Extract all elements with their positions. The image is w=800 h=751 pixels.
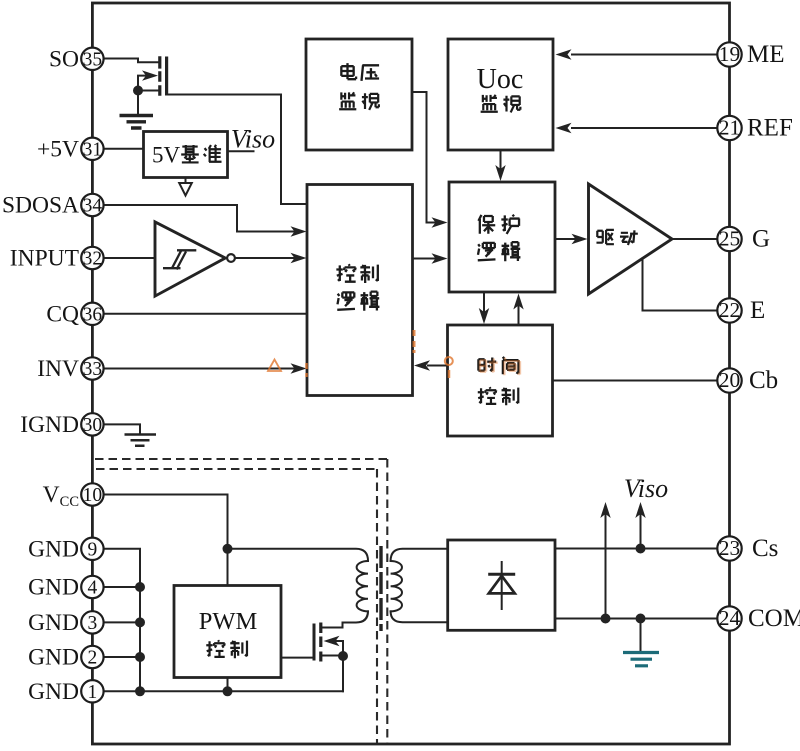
svg-text:3: 3 bbox=[88, 613, 98, 634]
svg-text:25: 25 bbox=[719, 227, 741, 251]
svg-text:ME: ME bbox=[747, 41, 785, 68]
svg-text:24: 24 bbox=[719, 606, 741, 630]
svg-text:G: G bbox=[752, 226, 770, 253]
svg-text:20: 20 bbox=[719, 368, 741, 392]
svg-text:1: 1 bbox=[88, 682, 98, 703]
svg-text:9: 9 bbox=[88, 539, 98, 560]
svg-text:INPUT: INPUT bbox=[10, 246, 79, 272]
svg-text:REF: REF bbox=[747, 115, 793, 142]
svg-text:SO: SO bbox=[49, 46, 79, 72]
svg-text:23: 23 bbox=[719, 536, 741, 560]
svg-text:+5V: +5V bbox=[37, 136, 79, 162]
svg-text:5V: 5V bbox=[152, 143, 181, 168]
svg-text:GND: GND bbox=[28, 679, 79, 705]
svg-text:36: 36 bbox=[83, 304, 103, 325]
svg-text:SDOSA: SDOSA bbox=[2, 193, 79, 219]
svg-text:E: E bbox=[750, 297, 765, 324]
svg-text:PWM: PWM bbox=[199, 608, 258, 635]
svg-text:Viso: Viso bbox=[231, 125, 275, 154]
svg-text:VCC: VCC bbox=[43, 482, 79, 510]
svg-text:GND: GND bbox=[28, 645, 79, 671]
svg-text:Viso: Viso bbox=[624, 474, 668, 503]
svg-text:GND: GND bbox=[28, 536, 79, 562]
svg-text:35: 35 bbox=[83, 49, 103, 70]
svg-text:31: 31 bbox=[83, 139, 103, 160]
svg-text:Uoc: Uoc bbox=[477, 64, 524, 95]
svg-text:33: 33 bbox=[83, 359, 103, 380]
svg-text:10: 10 bbox=[83, 485, 103, 506]
svg-text:32: 32 bbox=[83, 249, 103, 270]
svg-text:Cb: Cb bbox=[749, 367, 778, 394]
svg-text:22: 22 bbox=[719, 298, 741, 322]
svg-text:34: 34 bbox=[83, 196, 103, 217]
svg-text:30: 30 bbox=[83, 415, 103, 436]
svg-text:GND: GND bbox=[28, 575, 79, 601]
svg-text:19: 19 bbox=[719, 42, 741, 66]
svg-text:21: 21 bbox=[719, 116, 741, 140]
svg-text:IGND: IGND bbox=[20, 412, 79, 438]
svg-text:CQ: CQ bbox=[46, 301, 79, 327]
svg-text:INV: INV bbox=[37, 356, 79, 382]
svg-text:COM: COM bbox=[748, 605, 800, 632]
svg-text:4: 4 bbox=[88, 578, 98, 599]
svg-text:2: 2 bbox=[88, 648, 98, 669]
svg-text:Cs: Cs bbox=[752, 535, 778, 562]
svg-text:GND: GND bbox=[28, 610, 79, 636]
